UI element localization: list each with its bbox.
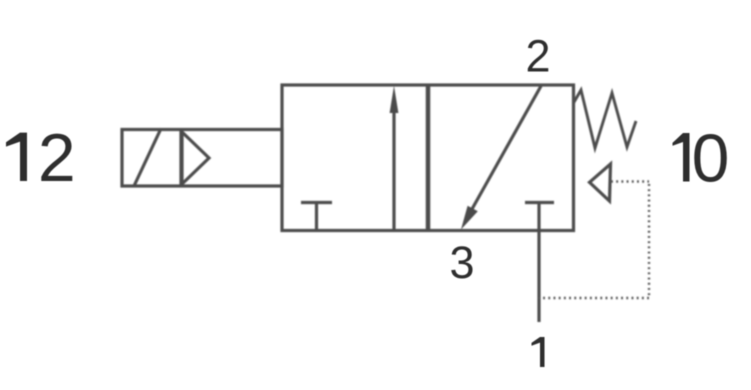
flow arrow (left square) head — [390, 86, 399, 113]
label 1 — [532, 337, 545, 367]
solenoid frame (coil to valve body link rectangle) — [122, 130, 282, 187]
solenoid actuator triangle — [182, 132, 209, 184]
pilot triangle — [590, 164, 611, 201]
flow path diagonal arrow head — [461, 206, 478, 230]
flow path diagonal (right square) line — [467, 86, 541, 218]
blocked port T (left square) stem — [315, 203, 318, 231]
label 12 digit 1 — [6, 133, 27, 181]
blocked port T (right square) stem — [537, 203, 540, 231]
label 10 digit 1 — [673, 133, 690, 182]
svg-text:2: 2 — [38, 120, 76, 196]
solenoid coil diagonal — [134, 129, 161, 187]
blocked port T (right square) bar — [525, 201, 554, 204]
valve body outline — [282, 85, 574, 231]
pilot dotted line horizontal top — [611, 180, 649, 182]
svg-text:3: 3 — [449, 237, 474, 288]
blocked port T (left square) bar — [301, 201, 332, 204]
flow arrow (left square, up) line — [392, 108, 395, 231]
pilot dotted line vertical — [648, 184, 650, 298]
solenoid coil box divider — [179, 130, 182, 187]
return spring — [574, 90, 637, 148]
port 1 connection line — [537, 231, 540, 323]
pilot dotted line horizontal bottom — [539, 297, 649, 299]
svg-text:0: 0 — [692, 121, 730, 197]
svg-text:2: 2 — [525, 31, 550, 82]
valve body position divider — [426, 85, 431, 231]
